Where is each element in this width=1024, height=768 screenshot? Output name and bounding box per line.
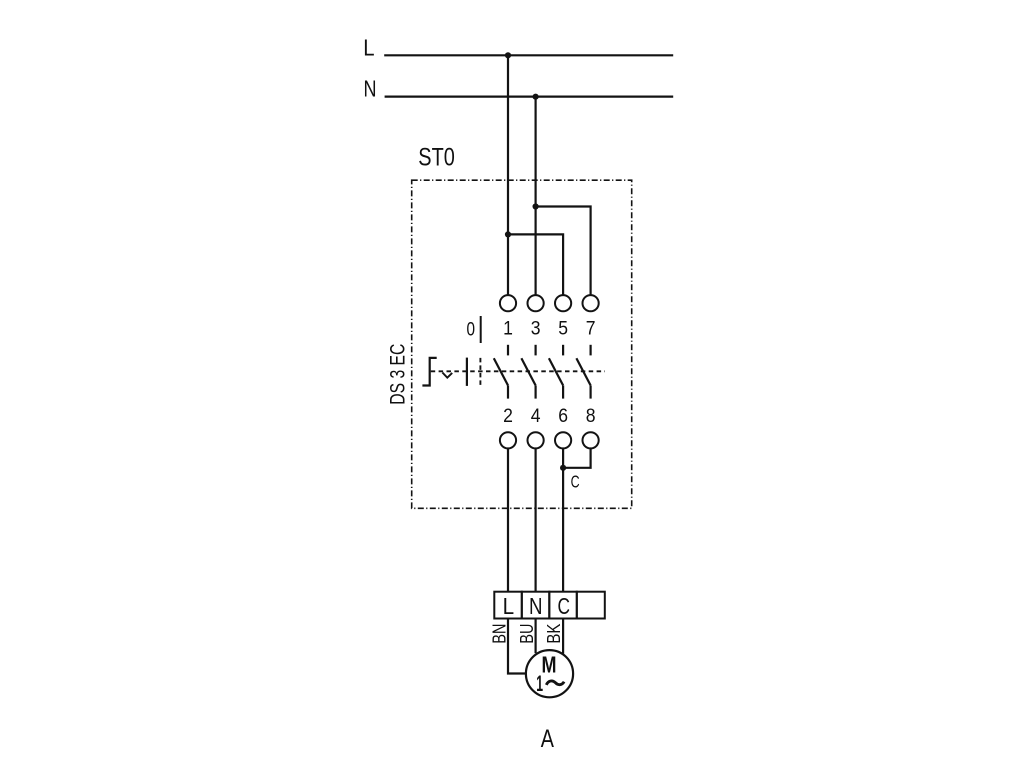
- pin 3 top tick: [534, 345, 536, 356]
- pin 6 terminal circle: [555, 432, 571, 448]
- wire pin 4 to terminal N: [534, 448, 536, 591]
- svg-text:BN: BN: [490, 624, 510, 644]
- node L: [0, 0, 1, 1]
- svg-text:M: M: [542, 652, 557, 678]
- svg-text:N: N: [529, 593, 543, 619]
- svg-text:ST0: ST0: [418, 144, 455, 172]
- svg-text:BK: BK: [544, 624, 564, 644]
- junction dot node C: [560, 465, 566, 471]
- wire BN terminal L to motor: [508, 619, 525, 674]
- svg-text:8: 8: [586, 405, 596, 427]
- switch blade 5-6: [549, 358, 563, 385]
- position 0 marker bar: [480, 316, 482, 343]
- pin 6 bottom tick: [562, 385, 564, 398]
- terminal box C: [549, 592, 577, 619]
- position bar solid: [466, 358, 468, 386]
- pin 1 top tick: [507, 345, 509, 356]
- svg-text:C: C: [557, 593, 570, 619]
- svg-text:6: 6: [558, 405, 568, 427]
- terminal box empty: [577, 592, 605, 619]
- svg-text:A: A: [541, 725, 554, 753]
- switch enclosure dashed box: [412, 180, 632, 508]
- svg-text:1: 1: [536, 671, 543, 696]
- junction dot on L line: [505, 52, 511, 58]
- wire L supply line: [384, 54, 673, 56]
- motor tilde: [546, 681, 564, 685]
- mechanical coupling dashed line: [431, 370, 605, 372]
- pin 3 terminal circle: [528, 295, 544, 311]
- pin 2 terminal circle: [500, 432, 516, 448]
- pin 2 bottom tick: [507, 385, 509, 398]
- pin 1 terminal circle: [500, 295, 516, 311]
- svg-text:5: 5: [558, 318, 568, 340]
- svg-text:BU: BU: [517, 624, 537, 644]
- junction dot on N line: [533, 94, 539, 100]
- svg-text:1: 1: [503, 318, 513, 340]
- wire L drop to pin 1: [507, 55, 509, 295]
- wire N branch to pin 7: [536, 207, 591, 296]
- wire BK terminal C to motor: [562, 619, 564, 654]
- position bar dashed: [479, 358, 481, 385]
- svg-text:L: L: [503, 593, 515, 619]
- switch blade 3-4: [521, 358, 535, 385]
- switch blade 1-2: [494, 358, 508, 385]
- terminal box L: [494, 592, 522, 619]
- svg-text:L: L: [363, 35, 374, 61]
- terminal box N: [522, 592, 550, 619]
- wire BU terminal N to motor: [534, 619, 536, 654]
- svg-text:7: 7: [586, 318, 596, 340]
- motor M1 circle: [526, 650, 573, 697]
- actuator handle bracket: [422, 358, 436, 386]
- wire N supply line: [385, 95, 674, 97]
- wire pin 6 to terminal C: [562, 448, 564, 591]
- junction dot L branch: [505, 231, 511, 237]
- junction dot N branch: [533, 203, 539, 209]
- svg-text:3: 3: [531, 318, 541, 340]
- svg-text:N: N: [364, 76, 377, 102]
- svg-text:4: 4: [531, 405, 541, 427]
- wire L branch to pin 5: [508, 234, 563, 295]
- pin 5 terminal circle: [555, 295, 571, 311]
- pin 5 top tick: [562, 345, 564, 356]
- pin 7 top tick: [589, 345, 591, 356]
- svg-text:2: 2: [503, 405, 513, 427]
- pin 4 bottom tick: [534, 385, 536, 398]
- wire pin 2 to terminal L: [507, 448, 509, 591]
- svg-text:DS 3 EC: DS 3 EC: [386, 344, 410, 405]
- pin 4 terminal circle: [528, 432, 544, 448]
- wire pin 8 to node C: [563, 448, 591, 467]
- switch blade 7-8: [576, 358, 590, 385]
- svg-text:0: 0: [467, 320, 476, 341]
- svg-text:C: C: [571, 471, 580, 491]
- pin 8 bottom tick: [589, 385, 591, 398]
- actuator chevron: [442, 373, 452, 378]
- pin 8 terminal circle: [583, 432, 599, 448]
- pin 7 terminal circle: [583, 295, 599, 311]
- wire N drop to pin 3: [534, 97, 536, 296]
